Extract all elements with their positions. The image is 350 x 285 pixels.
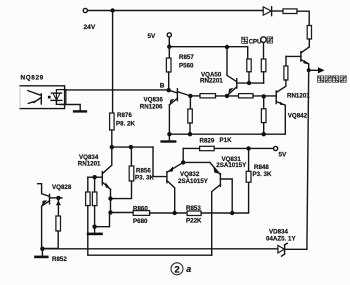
svg-text:VQ842: VQ842 [288,113,308,120]
wire left resistor to bottom line B [88,206,212,256]
ground (bottom left) [41,249,43,256]
node dot R876 bottom [110,145,114,149]
svg-text:R857: R857 [179,54,194,61]
svg-text:R876: R876 [117,112,132,119]
transistor RN1201 (upper right NPN) [286,47,309,68]
transistor VQ831 2SA1015Y [210,162,232,255]
label 至行启动 (CJK) [318,76,347,82]
wire VQ834 emitter down [110,189,112,212]
terminal 5V right [274,146,278,150]
resistor R848 P3.3K [246,171,251,182]
node 5V junction [167,45,171,49]
transistor VQ834 RN1201 [88,172,111,190]
node dot bottom left [40,247,44,251]
wire CPU terminal down [263,43,265,60]
node dot VQ831 base [230,211,234,215]
node dot A [56,196,60,200]
node dot emitter/y213 [108,210,112,214]
node dot R856 top [129,145,133,149]
node dots on y134 rail [167,132,171,136]
wire bottom line A [42,248,278,250]
wire 24V rail [88,10,264,12]
svg-text:P8. 2K: P8. 2K [116,120,135,127]
wire to VQ831 emitter [183,161,210,163]
zener diode VD834 [278,243,307,256]
svg-text:2SA1015Y: 2SA1015Y [216,162,247,169]
node dot emitters [181,160,185,164]
transistor VQ836 RN1206 [169,89,191,105]
svg-text:P3. 3K: P3. 3K [253,171,272,178]
svg-text:RN1201: RN1201 [287,93,310,100]
wire y96 line [190,95,200,97]
label 接CPU(8)脚 [242,37,248,43]
wire base to resistor [285,56,287,66]
svg-text:B: B [160,82,165,89]
wire 5V drop [168,37,170,46]
svg-text:R860: R860 [133,205,148,212]
node dot R848 top [246,146,250,150]
resistor under VQ842 base node [263,96,265,108]
svg-text:RN1201: RN1201 [78,161,101,168]
svg-text:a: a [186,264,191,274]
svg-text:24V: 24V [84,24,96,31]
node junction 24V/R876 [110,8,114,12]
resistor R852 [57,198,59,216]
node dot base line [247,81,251,85]
svg-text:R853: R853 [186,205,201,212]
wire y147 rail [112,146,153,148]
svg-text:RN1206: RN1206 [140,104,163,111]
svg-text:5V: 5V [148,33,157,40]
resistor (5V to base line) [247,59,251,72]
wire VQ836 emitter down [168,105,170,134]
ground (center) [168,134,170,140]
transistor VQ832 2SA1015Y [167,162,183,213]
wire to right corner [297,11,309,25]
node dot link [92,225,96,229]
resistor R853 P22K [187,211,201,216]
node dot collector [188,94,192,98]
svg-text:VQ828: VQ828 [52,184,72,191]
terminal 24V [83,8,87,12]
arrow 至行启动 output [311,67,325,73]
node dot VQA50 emitter [225,94,229,98]
wire y213 rail [111,212,134,214]
wire y134 rail [169,133,285,135]
svg-text:P3. 3K: P3. 3K [135,174,154,181]
wire node B line [65,89,169,91]
diode D-top [263,7,283,16]
node dot B [167,88,171,92]
svg-text:R856: R856 [136,167,151,174]
resistor (right, under VQ834 base) [94,177,96,192]
wire branch to VQ832 base [153,147,167,177]
opto LED [28,91,41,96]
node dot emitter/R856 [108,196,112,200]
resistor under VQ836 collector [189,96,191,109]
resistor R857 [168,47,170,58]
svg-text:VD834: VD834 [269,229,288,236]
svg-text:VQ832: VQ832 [180,171,200,178]
figure label (2) a [171,263,191,276]
resistor (top, unlabeled) [283,9,297,14]
node dot base divider [92,175,96,179]
opto box [20,86,65,109]
arrow A marker [56,201,61,206]
svg-text:P22K: P22K [186,218,202,225]
terminal 5V top [167,33,171,37]
resistor R876 chain [112,11,114,114]
wire VQ834 collector [102,147,111,174]
svg-text:P560: P560 [179,62,194,69]
resistor R860 P680 [133,211,149,216]
wire long right vertical [307,70,309,249]
svg-text:R829: R829 [200,138,215,145]
wire resistor to transistor collector [308,39,310,47]
node dot output [307,68,311,72]
ground (opto) [73,110,87,112]
wire right resistor to ground [94,206,96,233]
wire opto emitter to ground [60,105,80,111]
terminal circle CPU pin 8 [261,37,267,43]
wire branch down to VQ832 emitter node [182,148,184,162]
resistor (left, under VQ834 base) [87,177,89,192]
node dot VQ842 base branch [262,94,266,98]
svg-text:VQ836: VQ836 [144,97,164,104]
resistor (between VQ836 and VQA50) [200,94,216,98]
opto detector symbol [51,92,61,94]
ground (VQ834 divider) [87,233,103,236]
svg-text:2SA1015Y: 2SA1015Y [178,178,209,185]
wire to base line [263,72,265,83]
svg-text:2: 2 [174,264,179,275]
resistor (CPU pin to base line) [261,59,266,72]
svg-text:5V: 5V [279,152,288,159]
resistor (right vertical, unlabeled) [307,26,311,40]
node dot VQ832 collector [172,211,176,215]
transistor VQA50 RN2201 [227,47,264,96]
wire 5V rail [169,47,247,59]
svg-text:RN2201: RN2201 [200,78,223,85]
svg-text:04AZ5. 1Y: 04AZ5. 1Y [266,236,296,243]
svg-text:CPU: CPU [249,39,262,45]
svg-text:P680: P680 [133,218,148,225]
svg-text:P1K: P1K [220,137,233,144]
wire resistor to base line [248,72,250,83]
wire R829 line [183,147,199,149]
wire link to emitter rail [95,213,110,227]
transistor VQ842 [276,80,286,134]
resistor R829 P1K [200,146,215,150]
resistor (base of upper right transistor) [284,66,288,80]
resistor R856 [130,147,132,166]
svg-text:NQ829: NQ829 [21,74,44,81]
opto detector box [56,90,66,105]
resistor (right of VQA50) [239,94,254,98]
node dot VQA50 collector branch [225,45,229,49]
svg-text:R852: R852 [52,256,67,263]
transistor VQ828 [38,184,62,249]
